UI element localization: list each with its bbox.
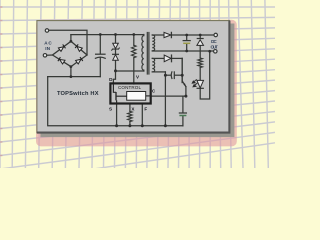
bridge rectifier diamond <box>53 41 88 66</box>
transformer bias winding <box>152 58 154 72</box>
transformer core <box>146 33 148 75</box>
secondary return wire <box>152 50 213 52</box>
opto LED triangle (down) <box>197 80 204 88</box>
gray drop shadow <box>40 24 234 138</box>
bridge diode D3 (- bottom to left AC) <box>58 57 65 64</box>
+ rail <box>71 34 144 36</box>
svg-text:F: F <box>144 106 147 111</box>
V-pin line sense resistor R1 <box>133 35 135 46</box>
AC IN label <box>44 40 52 51</box>
wire top AC to bridge right corner <box>49 30 87 55</box>
transformer T1 primary winding <box>142 35 144 72</box>
bridge diode D1 (lower-left AC to + top) <box>58 44 65 51</box>
junction F pin at ground rail <box>141 124 144 127</box>
bias coupling capacitor C3 <box>152 71 165 73</box>
svg-text:DC: DC <box>211 39 217 44</box>
svg-text:TOPSwitch HX: TOPSwitch HX <box>57 91 99 97</box>
F pin wire <box>141 104 143 126</box>
graph paper background <box>0 0 275 168</box>
AC terminal bottom <box>43 54 47 58</box>
junction bias return at ground rail <box>164 124 167 127</box>
S pin wire <box>116 104 118 126</box>
bulk capacitor C1 <box>99 35 101 54</box>
optocoupler transistor Q1 <box>181 58 183 82</box>
optocoupler LED bar <box>197 87 203 89</box>
wire D node to primary bottom <box>116 70 144 72</box>
capacitor C4 polarized plate <box>179 115 186 117</box>
D node wire down to switch <box>113 71 115 84</box>
bridge diode D2 (right AC to + top) <box>75 44 82 51</box>
wire bottom AC to bridge left corner <box>47 54 53 56</box>
clamp zener stack VR1 <box>115 35 117 44</box>
DC OUT label <box>211 39 219 49</box>
svg-text:S: S <box>109 106 112 111</box>
feedback resistor R2 <box>198 58 203 68</box>
junction LED return at - out <box>208 50 211 53</box>
opto light arrows <box>192 79 197 87</box>
junction X resistor at ground rail <box>128 124 131 127</box>
C pin bypass capacitor C4 <box>182 96 184 113</box>
bias winding rectifier diode D6 <box>152 57 164 59</box>
svg-text:AC: AC <box>44 40 52 45</box>
zener feedback chain VR2 <box>199 35 201 38</box>
secondary + rail with output diode D5 <box>152 34 164 36</box>
transformer secondary winding <box>152 35 154 51</box>
svg-text:OUT: OUT <box>211 44 219 49</box>
junction bias cap right at collector <box>181 74 184 77</box>
junction clamp at + rail <box>114 33 117 36</box>
AC terminal top <box>45 29 49 33</box>
junction bridge bottom corner <box>70 65 73 68</box>
bridge diode D4 (- bottom to right AC) <box>76 57 83 64</box>
opto emitter arrowhead <box>183 83 186 86</box>
junction bridge top corner <box>70 40 73 43</box>
svg-text:CONTROL: CONTROL <box>118 85 141 90</box>
clamp zener triangle (down) <box>113 43 119 48</box>
junction sense resistor at + rail <box>132 33 135 36</box>
capacitor C2 polarized plate <box>183 42 190 44</box>
bias diode triangle <box>164 55 171 62</box>
schematic panel <box>36 20 230 133</box>
left return drop and ground rail <box>48 77 183 126</box>
junction bulk cap at + rail <box>99 33 102 36</box>
junction zener chain at + out rail <box>199 34 202 37</box>
junction bridge minus wire <box>70 75 73 78</box>
X pin resistor R3 <box>129 104 131 112</box>
TOPSwitch control block U1 <box>110 83 150 103</box>
junction emitter at C pin wire <box>184 95 187 98</box>
junction output cap at return <box>185 50 188 53</box>
DC OUT terminals <box>214 33 218 37</box>
junction S pin at ground rail <box>115 124 118 127</box>
node D clamp/primary/drain <box>114 69 117 72</box>
minus wire from bridge bottom <box>70 67 72 77</box>
output capacitor C2 <box>186 35 188 40</box>
wire bridge top to + rail <box>70 35 72 42</box>
pink glow around panel <box>36 20 237 147</box>
svg-text:IN: IN <box>45 46 50 51</box>
output diode triangle <box>164 32 171 37</box>
junction output cap at + out rail <box>185 34 188 37</box>
clamp diode triangle (up) <box>113 55 119 61</box>
white outline diodes <box>113 32 204 88</box>
zener VR2 triangle (up) <box>197 40 204 46</box>
C pin wire <box>151 95 186 97</box>
junction bias cap left <box>164 74 167 77</box>
